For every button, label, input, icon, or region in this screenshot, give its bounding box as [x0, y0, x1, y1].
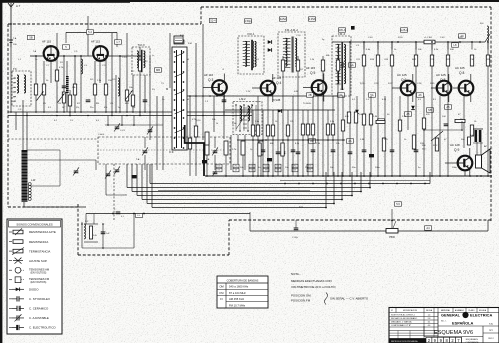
svg-text:25u: 25u [234, 166, 237, 168]
svg-text:100u: 100u [452, 167, 458, 169]
svg-text:FECHA: FECHA [426, 309, 433, 312]
svg-text:1.7: 1.7 [116, 40, 120, 44]
svg-text:M: M [166, 87, 168, 91]
svg-text:4A5A: 4A5A [280, 17, 287, 21]
svg-text:REPRODUCCION PROHIBIDA: REPRODUCCION PROHIBIDA [391, 340, 418, 343]
svg-text:5%: 5% [152, 89, 155, 91]
svg-text:A.T: A.T [16, 4, 21, 8]
svg-text:AF 115: AF 115 [42, 40, 51, 44]
svg-text:MB: MB [156, 68, 160, 72]
svg-text:DIODO: DIODO [29, 288, 39, 292]
svg-text:C. CERAMICO: C. CERAMICO [29, 307, 49, 311]
svg-text:o5c: o5c [13, 83, 16, 85]
svg-text:AJUSTE SUP.: AJUSTE SUP. [29, 259, 47, 263]
svg-text:5.6: 5.6 [396, 202, 400, 206]
svg-text:Q 8: Q 8 [459, 71, 464, 75]
svg-text:+1.2 R4: +1.2 R4 [424, 37, 433, 39]
svg-text:F.M.-3: F.M.-3 [338, 33, 346, 36]
svg-text:2B: 2B [308, 93, 311, 97]
svg-text:C. AJUSTABLE: C. AJUSTABLE [29, 316, 49, 320]
svg-text:100u: 100u [375, 167, 381, 169]
svg-text:99.12: 99.12 [488, 338, 494, 340]
svg-text:5B: 5B [29, 35, 32, 39]
svg-text:Q 1: Q 1 [46, 44, 51, 48]
svg-text:70 SUB: 70 SUB [272, 99, 281, 102]
svg-text:ELECTRICA: ELECTRICA [470, 313, 492, 318]
svg-text:NTC: NTC [433, 145, 438, 147]
svg-text:3-1: 3-1 [428, 322, 431, 324]
svg-text:1.2V: 1.2V [246, 91, 251, 93]
svg-text:C.F: C.F [169, 150, 174, 154]
svg-text:4.05A: 4.05A [309, 17, 316, 21]
svg-text:SIGNOS CONVENCIONALES: SIGNOS CONVENCIONALES [16, 223, 52, 227]
svg-text:o5c: o5c [13, 92, 16, 94]
svg-text:AM 455 KHz: AM 455 KHz [229, 297, 245, 301]
svg-text:4-25-A: 4-25-A [400, 28, 408, 32]
svg-text:M: M [187, 99, 189, 101]
svg-text:F.M.-A.M.-2: F.M.-A.M.-2 [285, 29, 299, 32]
svg-text:Q 4: Q 4 [276, 81, 281, 85]
svg-text:GENERAL: GENERAL [441, 313, 461, 318]
svg-text:C.A.G.: C.A.G. [98, 133, 105, 136]
svg-text:AF 115: AF 115 [306, 66, 315, 70]
svg-text:25u: 25u [293, 166, 296, 168]
svg-text:o5c: o5c [13, 87, 16, 89]
svg-text:F.M.: F.M. [188, 43, 193, 45]
svg-text:L.W: L.W [31, 179, 36, 182]
svg-text:5%: 5% [309, 170, 312, 172]
svg-text:L.M.2: L.M.2 [239, 97, 246, 101]
svg-text:FECHA 12-4-66 DELINEADO: FECHA 12-4-66 DELINEADO [391, 317, 418, 320]
svg-text:Q 6: Q 6 [401, 78, 406, 82]
svg-text:2-8: 2-8 [428, 318, 431, 320]
svg-text:C. STYROFLEX: C. STYROFLEX [29, 297, 50, 301]
svg-text:MODIFICACION: MODIFICACION [403, 309, 418, 312]
svg-text:RESISTENCIA AJTE: RESISTENCIA AJTE [29, 230, 56, 234]
svg-text:(EN VOLTIOS): (EN VOLTIOS) [31, 271, 47, 274]
svg-text:AF 116: AF 116 [204, 73, 213, 77]
svg-text:COMPROBADO Vº Bº: COMPROBADO Vº Bº [391, 324, 411, 327]
svg-text:5%: 5% [76, 107, 79, 109]
svg-text:10n: 10n [217, 166, 220, 168]
svg-text:540 a 1600 KHz: 540 a 1600 KHz [229, 285, 249, 289]
svg-text:Q 2: Q 2 [95, 44, 100, 48]
svg-text:A6: A6 [418, 93, 422, 97]
svg-text:C 47p: C 47p [292, 237, 299, 239]
svg-text:F.L.: F.L. [137, 215, 141, 217]
svg-text:AF 115: AF 115 [91, 40, 100, 44]
svg-text:1.50pj: 1.50pj [244, 19, 251, 23]
svg-text:Nº: Nº [391, 309, 393, 312]
svg-text:0.8V: 0.8V [294, 91, 299, 93]
svg-text:T.S.: T.S. [470, 135, 474, 137]
svg-text:52-4: 52-4 [210, 18, 216, 22]
svg-text:C. ELECTROLITICO: C. ELECTROLITICO [29, 326, 56, 330]
svg-text:10n: 10n [308, 166, 311, 168]
svg-text:3A: 3A [339, 93, 342, 97]
svg-text:P500: P500 [389, 236, 395, 239]
svg-text:S.A.: S.A. [489, 323, 494, 326]
svg-text:AF 116: AF 116 [272, 76, 281, 80]
svg-text:5.6k: 5.6k [93, 235, 97, 237]
svg-text:o5c: o5c [13, 101, 16, 103]
svg-text:Q 7: Q 7 [440, 78, 445, 82]
svg-text:o5c: o5c [13, 96, 16, 98]
svg-text:T.A: T.A [13, 37, 17, 40]
svg-text:AC 125: AC 125 [455, 66, 465, 70]
svg-text:A4: A4 [426, 226, 430, 230]
svg-text:5%: 5% [218, 170, 221, 172]
svg-text:OM: OM [219, 285, 224, 289]
svg-text:C.V.1: C.V.1 [120, 130, 126, 132]
svg-text:RESISTENCIA: RESISTENCIA [29, 240, 48, 244]
svg-text:T.A.: T.A. [136, 158, 140, 161]
svg-text:VOLTIMETRO DE 20 K.o./VOLTIO: VOLTIMETRO DE 20 K.o./VOLTIO [291, 285, 336, 289]
svg-text:MEDIDAS EFECTUADAS CON: MEDIDAS EFECTUADAS CON [291, 279, 332, 283]
svg-text:87 a 104 MHz: 87 a 104 MHz [229, 291, 246, 295]
svg-text:POSICION FM: POSICION FM [291, 299, 311, 303]
svg-text:o5c: o5c [13, 78, 16, 80]
svg-text:T.M.-0: T.M.-0 [138, 44, 146, 47]
svg-text:AC 125: AC 125 [436, 73, 446, 77]
svg-text:445-A: 445-A [339, 28, 346, 32]
svg-text:AC 128: AC 128 [450, 143, 460, 147]
svg-text:C.V: C.V [299, 206, 303, 209]
svg-text:SUSTITUYE AL 2-99827-1: SUSTITUYE AL 2-99827-1 [391, 314, 416, 317]
svg-text:T.K: T.K [13, 67, 17, 71]
svg-text:TERMISTANCIA: TERMISTANCIA [29, 249, 50, 253]
svg-text:Q 5: Q 5 [310, 71, 315, 75]
svg-text:AC 125: AC 125 [397, 73, 407, 77]
svg-text:F.M.-1: F.M.-1 [248, 33, 256, 36]
svg-text:SD , l .: SD , l . [441, 321, 447, 323]
svg-text:(EN VOLTIOS): (EN VOLTIOS) [31, 281, 47, 284]
svg-text:50u: 50u [264, 166, 267, 168]
svg-text:ESPAÑOLA: ESPAÑOLA [452, 321, 474, 326]
svg-text:M: M [187, 59, 189, 61]
svg-text:1.1V: 1.1V [340, 89, 345, 91]
svg-text:POSICION OM: POSICION OM [291, 294, 311, 298]
svg-text:NOTA.-: NOTA.- [291, 272, 301, 276]
svg-text:4-6: 4-6 [428, 325, 431, 327]
svg-text:5-4: 5-4 [88, 30, 92, 34]
svg-text:ESQUEMA 9V6: ESQUEMA 9V6 [434, 330, 473, 336]
svg-text:SIN SEÑAL — C.V. ABIERTO: SIN SEÑAL — C.V. ABIERTO [330, 296, 369, 301]
svg-text:70 SUB: 70 SUB [303, 103, 311, 105]
svg-text:Q 3: Q 3 [208, 78, 213, 82]
svg-text:FI: FI [220, 297, 223, 301]
svg-text:DIBUJADO J. GARCIA: DIBUJADO J. GARCIA [391, 321, 412, 324]
svg-text:1-4: 1-4 [428, 315, 431, 317]
svg-text:ESQUEMA N.: ESQUEMA N. [466, 338, 479, 341]
svg-text:Q 9: Q 9 [454, 148, 459, 152]
svg-text:COBERTURA DE BANDAS: COBERTURA DE BANDAS [227, 278, 259, 282]
svg-text:FM 10.7 MHz: FM 10.7 MHz [229, 303, 246, 307]
